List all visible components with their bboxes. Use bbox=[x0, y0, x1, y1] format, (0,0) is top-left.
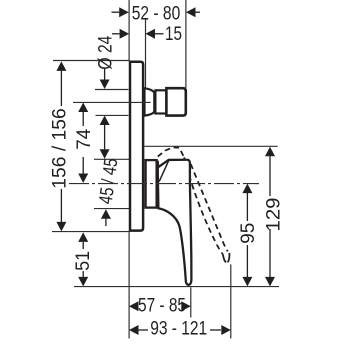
escutcheon plate bbox=[130, 62, 143, 231]
wire: pivot center line y=183.6 bbox=[69, 183, 259, 185]
lever head interior edge bbox=[159, 161, 168, 182]
dimension 45 upper (x=104.6 line) bbox=[100, 116, 110, 126]
wire: extension line y=231.5 bbox=[52, 231, 129, 233]
dimension 129 bbox=[265, 147, 275, 157]
dimension 74 bbox=[78, 103, 88, 113]
dimension 95 bbox=[242, 184, 252, 194]
svg-text:129: 129 bbox=[263, 198, 284, 232]
wire: extension line y=208.6 bbox=[94, 208, 131, 210]
svg-text:52 - 80: 52 - 80 bbox=[132, 3, 181, 24]
dimension 51 bbox=[78, 232, 88, 242]
wire: extension line y=146.8 top of lever bbox=[145, 145, 278, 147]
wire: extension line y=89.5 bbox=[95, 89, 128, 91]
wire: extension line x=190.6 bottom (lever tip) bbox=[190, 287, 192, 317]
cartridge sleeve bbox=[146, 160, 157, 208]
dashed lever arm bbox=[184, 157, 223, 254]
wire: extension line y=60.6 plate top bbox=[53, 60, 129, 62]
dashed lever tip bbox=[223, 254, 226, 262]
wire: extension line x=185.9 (end of adapter) bbox=[185, 0, 187, 88]
wire: extension line y=115 bbox=[96, 114, 129, 116]
dimension 57-85 bbox=[129, 301, 139, 311]
dashed lever (alternate position) head bbox=[158, 147, 184, 157]
svg-text:156 / 156: 156 / 156 bbox=[50, 108, 71, 189]
spout neck bbox=[155, 90, 166, 113]
lever handle solid bbox=[158, 160, 192, 285]
svg-text:74: 74 bbox=[74, 128, 95, 149]
wire: center line y=102 of spout stub bbox=[73, 101, 151, 103]
svg-text:57 - 85: 57 - 85 bbox=[138, 296, 186, 317]
dimension 15 bbox=[112, 33, 120, 35]
wire: wall extension line x=129 bbox=[128, 0, 130, 61]
wire: floor line y=286.6 bbox=[74, 286, 279, 288]
dimension 156/156 bbox=[56, 61, 66, 71]
wire: extension line y=159.2 bbox=[94, 158, 131, 160]
dimension 45/45 lower arrow bbox=[101, 209, 111, 219]
svg-text:93 - 121: 93 - 121 bbox=[150, 319, 207, 340]
adapter block diameter 24 bbox=[166, 88, 185, 115]
wire: extension line x=229.8 bottom (dashed lever tip) bbox=[230, 264, 232, 338]
svg-text:Ø 24: Ø 24 bbox=[96, 35, 117, 69]
wire: extension line x=145.4 (front of plate) bbox=[145, 19, 147, 88]
svg-text:95: 95 bbox=[238, 223, 259, 244]
svg-text:51: 51 bbox=[73, 251, 94, 271]
dimension 93-121 bbox=[129, 325, 139, 335]
svg-text:15: 15 bbox=[165, 24, 182, 45]
spout cone bbox=[145, 88, 155, 115]
cone arc bbox=[154, 92, 155, 111]
dimension 52-80 top bbox=[112, 11, 120, 13]
